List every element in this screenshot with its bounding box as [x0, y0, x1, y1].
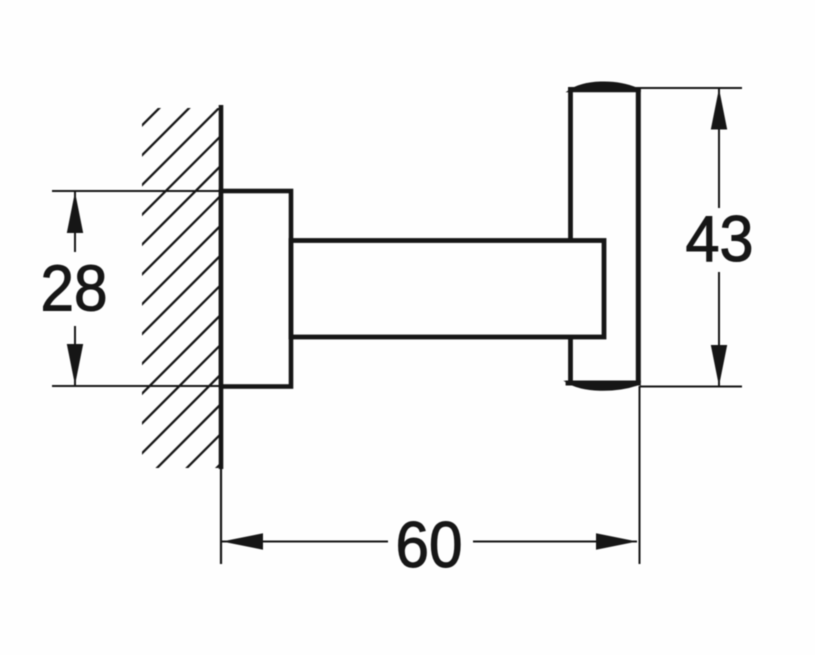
extension line 28 bottom — [52, 385, 221, 387]
svg-text:28: 28 — [41, 252, 108, 325]
extension line 60 left — [220, 469, 222, 564]
extension line 60 right — [639, 386, 641, 564]
dimension 28 arrow up — [67, 192, 83, 233]
extension line 28 top — [52, 190, 221, 192]
svg-text:60: 60 — [396, 508, 463, 581]
arm — [291, 241, 604, 338]
wall line — [219, 105, 224, 469]
extension line 43 bottom — [640, 386, 742, 388]
knob (hook end cap) — [566, 82, 641, 390]
dimension 60 arrow left — [222, 533, 263, 549]
dimension 43 line — [718, 89, 720, 387]
extension line 43 top — [640, 87, 742, 89]
dimension 60 arrow right — [596, 533, 637, 549]
mounting plate — [221, 191, 291, 387]
dimension 60 line — [222, 541, 637, 543]
dimension 43 arrow up — [711, 89, 727, 130]
dimension 43 arrow down — [711, 345, 727, 386]
dimension 28 line — [74, 192, 76, 385]
dimension 28 arrow down — [67, 344, 83, 385]
wall hatching — [112, 46, 221, 572]
svg-text:43: 43 — [686, 202, 754, 275]
